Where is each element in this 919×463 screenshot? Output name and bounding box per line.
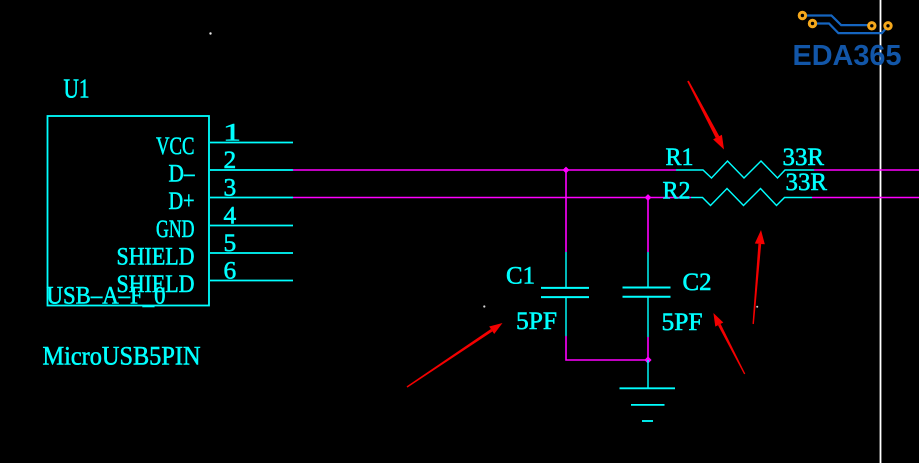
- pin 3 number: [224, 175, 237, 202]
- logo pad 4: [885, 23, 891, 29]
- pin 1 number: [223, 120, 241, 147]
- pin 4 stub: [210, 225, 293, 227]
- pin 2 stub: [210, 169, 293, 171]
- pin 5 number: [224, 230, 237, 257]
- part name USB-A-F_0: [47, 283, 166, 310]
- pin 1 VCC label: [156, 133, 195, 160]
- logo text EDA365: [793, 40, 902, 72]
- wire D+ net right segment: [812, 197, 919, 199]
- svg-text:R1: R1: [666, 144, 694, 171]
- svg-text:VCC: VCC: [156, 133, 195, 160]
- connector U1 designator: [64, 74, 90, 104]
- svg-text:USB–A–F_0: USB–A–F_0: [47, 283, 166, 310]
- resistor R2 designator: [663, 178, 691, 205]
- svg-text:SHIELD: SHIELD: [117, 244, 195, 271]
- svg-text:33R: 33R: [783, 144, 825, 171]
- capacitor C2 value 5PF: [662, 309, 703, 336]
- svg-text:D–: D–: [169, 161, 195, 188]
- svg-text:MicroUSB5PIN: MicroUSB5PIN: [43, 341, 201, 371]
- capacitor C1 value 5PF: [516, 308, 557, 335]
- annotation arrow at C1: [407, 323, 503, 388]
- svg-text:5PF: 5PF: [516, 308, 557, 335]
- wire C1 drop: [565, 170, 567, 252]
- annotation arrow at R1: [687, 81, 724, 150]
- svg-text:U1: U1: [64, 74, 90, 104]
- type label MicroUSB5PIN: [43, 341, 201, 371]
- resistor R1 value 33R: [783, 144, 825, 171]
- pin 5 SHIELD label: [117, 244, 195, 271]
- pin 3 stub: [210, 197, 293, 199]
- logo pad 3: [869, 23, 875, 29]
- pin 2 number: [224, 147, 237, 174]
- pin 4 GND label: [156, 216, 195, 243]
- wire D+ net left segment: [293, 197, 691, 199]
- capacitor C2: [623, 252, 671, 337]
- logo pad 2: [809, 20, 815, 26]
- pin 6 SHIELD label: [117, 271, 195, 298]
- pin 1 stub: [210, 142, 293, 144]
- svg-text:33R: 33R: [786, 169, 828, 196]
- resistor R2: [691, 189, 812, 206]
- pin 5 stub: [210, 252, 293, 254]
- annotation arrow at C2: [713, 313, 745, 374]
- svg-text:C1: C1: [506, 263, 535, 290]
- svg-text:GND: GND: [156, 216, 195, 243]
- svg-text:5PF: 5PF: [662, 309, 703, 336]
- svg-text:C2: C2: [683, 269, 712, 296]
- svg-text:EDA365: EDA365: [793, 40, 902, 72]
- resistor R1: [676, 161, 814, 178]
- resistor R1 designator: [666, 144, 694, 171]
- dust specks: [209, 32, 211, 34]
- wire C2 drop: [647, 198, 649, 253]
- annotation arrow at R2: [753, 230, 765, 324]
- junction D- to C1: [563, 167, 570, 174]
- wire C2 bottom segment: [647, 337, 649, 360]
- wire D- net right segment: [814, 169, 919, 171]
- wire C1 bottom to ground node: [566, 336, 648, 360]
- pin 2 D- label: [169, 161, 195, 188]
- svg-text:R2: R2: [663, 178, 691, 205]
- logo pad 1: [799, 12, 805, 18]
- connector U1 body: [48, 116, 210, 306]
- svg-text:D+: D+: [169, 188, 195, 215]
- wire D- net left segment: [293, 169, 676, 171]
- pin 3 D+ label: [169, 188, 195, 215]
- capacitor C1 designator: [506, 263, 535, 290]
- logo trace 1: [802, 16, 871, 26]
- sheet border line: [880, 0, 882, 463]
- pin 4 number: [224, 203, 237, 230]
- ground: [620, 360, 676, 421]
- pin 6 number: [224, 258, 237, 285]
- junction ground node: [644, 356, 651, 363]
- resistor R2 value 33R: [786, 169, 828, 196]
- pin 6 stub: [210, 280, 293, 282]
- capacitor C1: [541, 252, 589, 336]
- logo trace 2: [813, 24, 889, 34]
- capacitor C2 designator: [683, 269, 712, 296]
- junction D+ to C2: [645, 194, 652, 201]
